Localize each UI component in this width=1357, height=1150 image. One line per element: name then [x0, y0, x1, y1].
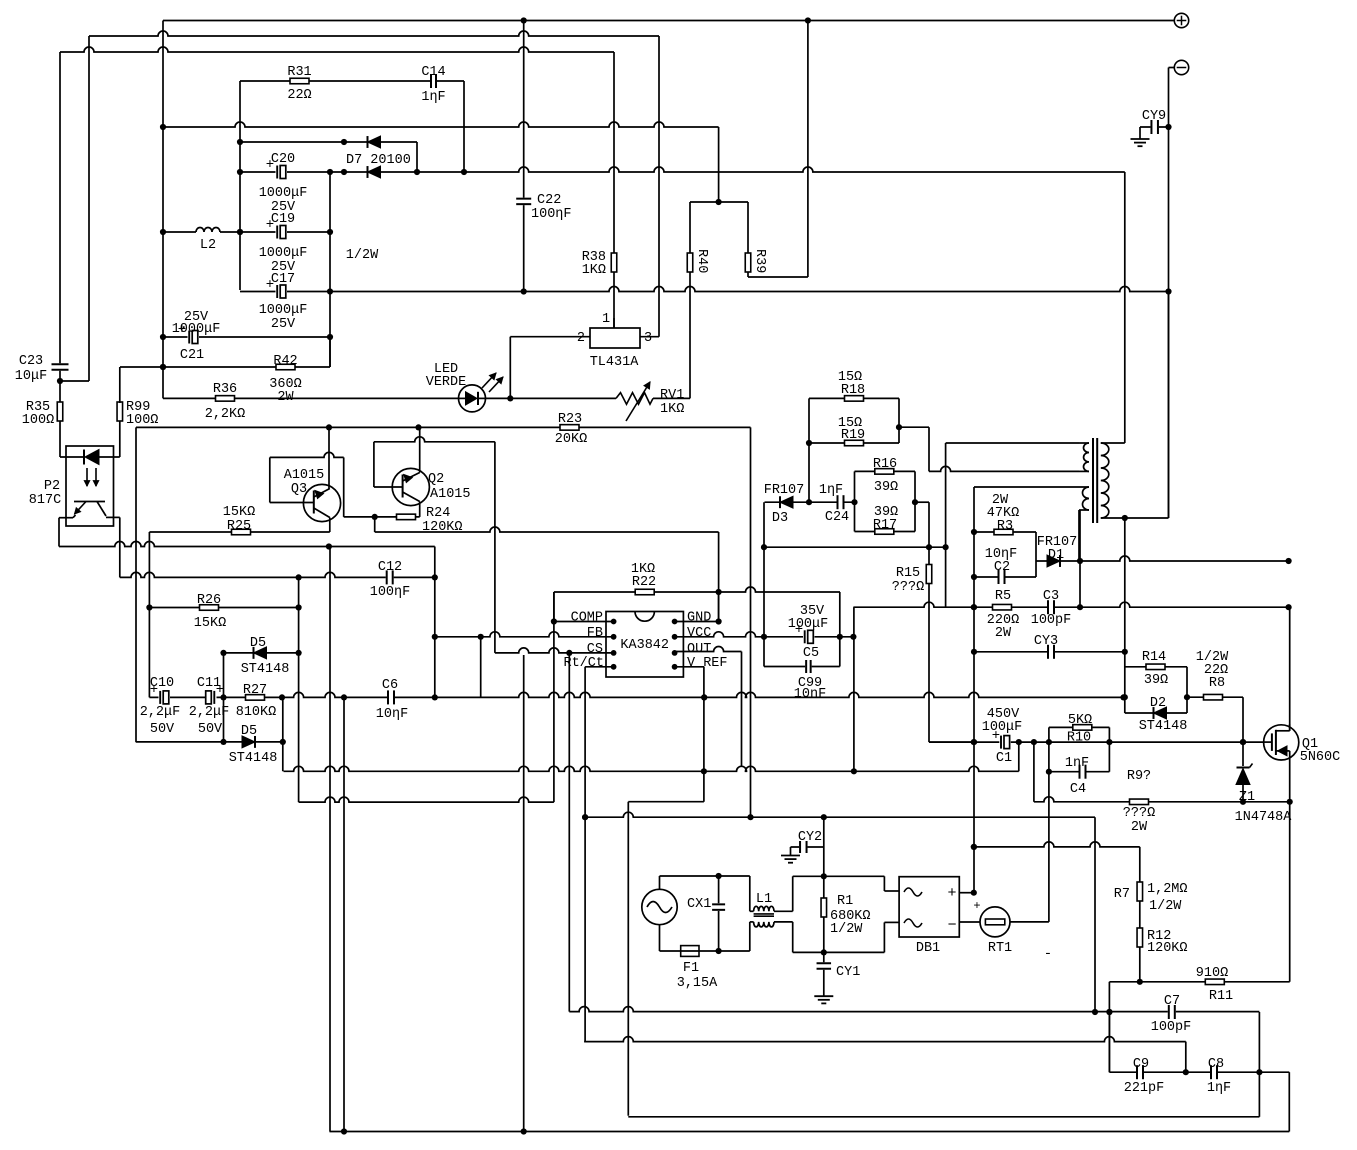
svg-text:1KΩ: 1KΩ: [660, 402, 684, 417]
svg-text:C23: C23: [19, 354, 43, 369]
svg-text:2W: 2W: [995, 626, 1012, 641]
svg-text:R22: R22: [632, 575, 656, 590]
svg-text:1: 1: [602, 312, 610, 327]
svg-text:50V: 50V: [198, 722, 223, 737]
svg-text:2,2μF: 2,2μF: [140, 705, 181, 720]
svg-text:2: 2: [577, 331, 585, 346]
svg-text:100Ω: 100Ω: [126, 413, 158, 428]
svg-text:CS: CS: [587, 642, 603, 657]
svg-text:5N60C: 5N60C: [1300, 750, 1341, 765]
svg-text:2,2KΩ: 2,2KΩ: [205, 407, 246, 422]
svg-text:D3: D3: [772, 511, 788, 526]
svg-text:1ηF: 1ηF: [819, 483, 843, 498]
svg-text:910Ω: 910Ω: [1196, 966, 1228, 981]
svg-text:100μF: 100μF: [982, 720, 1023, 735]
svg-text:R16: R16: [873, 457, 897, 472]
svg-text:R8: R8: [1209, 676, 1225, 691]
svg-text:F1: F1: [683, 961, 699, 976]
svg-text:Q2: Q2: [428, 472, 444, 487]
svg-text:R5: R5: [995, 589, 1011, 604]
svg-text:C2: C2: [994, 560, 1010, 575]
svg-text:R19: R19: [841, 428, 865, 443]
svg-text:810KΩ: 810KΩ: [236, 705, 277, 720]
svg-text:C19: C19: [271, 212, 295, 227]
svg-text:VCC: VCC: [687, 626, 711, 641]
svg-text:OUT: OUT: [687, 642, 711, 657]
svg-text:R36: R36: [213, 382, 237, 397]
svg-text:10nF: 10nF: [794, 687, 826, 702]
svg-text:CY3: CY3: [1034, 634, 1058, 649]
svg-text:COMP: COMP: [571, 611, 603, 626]
svg-text:1000μF: 1000μF: [259, 186, 308, 201]
svg-text:C10: C10: [150, 676, 174, 691]
svg-text:100pF: 100pF: [1151, 1020, 1192, 1035]
svg-text:D5: D5: [250, 636, 266, 651]
svg-text:C4: C4: [1070, 782, 1086, 797]
svg-text:817C: 817C: [29, 493, 61, 508]
svg-text:C7: C7: [1164, 994, 1180, 1009]
svg-text:R18: R18: [841, 383, 865, 398]
svg-text:1/2W: 1/2W: [1149, 899, 1182, 914]
svg-text:Q3: Q3: [291, 482, 307, 497]
svg-text:R26: R26: [197, 593, 221, 608]
svg-text:−: −: [947, 917, 956, 934]
svg-text:C17: C17: [271, 272, 295, 287]
svg-text:C14: C14: [421, 65, 445, 80]
svg-text:???Ω: ???Ω: [892, 580, 924, 595]
svg-text:R25: R25: [227, 519, 251, 534]
svg-text:CY9: CY9: [1142, 109, 1166, 124]
svg-text:1/2W: 1/2W: [346, 248, 379, 263]
svg-text:221pF: 221pF: [1124, 1081, 1165, 1096]
svg-text:C9: C9: [1133, 1057, 1149, 1072]
svg-text:10ηF: 10ηF: [376, 707, 408, 722]
svg-text:FR107: FR107: [764, 483, 805, 498]
svg-text:15KΩ: 15KΩ: [223, 505, 255, 520]
svg-text:CY1: CY1: [836, 965, 860, 980]
svg-text:D1: D1: [1048, 548, 1064, 563]
svg-text:10μF: 10μF: [15, 369, 47, 384]
svg-text:1ηF: 1ηF: [1207, 1081, 1231, 1096]
svg-text:R7: R7: [1114, 887, 1130, 902]
svg-text:L2: L2: [200, 238, 216, 253]
svg-text:C3: C3: [1043, 589, 1059, 604]
svg-text:R23: R23: [558, 412, 582, 427]
svg-text:R10: R10: [1067, 731, 1091, 746]
svg-text:R24: R24: [426, 506, 450, 521]
svg-text:C24: C24: [825, 510, 849, 525]
svg-text:R14: R14: [1142, 650, 1166, 665]
svg-text:3,15A: 3,15A: [677, 976, 718, 991]
svg-text:VERDE: VERDE: [426, 375, 467, 390]
svg-text:100ηF: 100ηF: [531, 207, 572, 222]
svg-text:FB: FB: [587, 626, 603, 641]
svg-text:R1: R1: [837, 894, 853, 909]
svg-text:Z1: Z1: [1239, 790, 1255, 805]
svg-text:1,2MΩ: 1,2MΩ: [1147, 882, 1188, 897]
svg-text:RV1: RV1: [660, 388, 684, 403]
svg-text:5KΩ: 5KΩ: [1068, 713, 1092, 728]
svg-text:20KΩ: 20KΩ: [555, 432, 587, 447]
svg-text:D5: D5: [241, 724, 257, 739]
svg-text:TL431A: TL431A: [590, 355, 640, 370]
svg-text:100Ω: 100Ω: [22, 413, 54, 428]
svg-text:A1015: A1015: [284, 468, 325, 483]
svg-text:1ηF: 1ηF: [1065, 756, 1089, 771]
svg-text:C20: C20: [271, 152, 295, 167]
svg-text:+: +: [973, 899, 980, 913]
svg-text:1/2W: 1/2W: [830, 922, 863, 937]
svg-text:2W: 2W: [1131, 820, 1148, 835]
svg-text:RT1: RT1: [988, 941, 1012, 956]
svg-text:KA3842: KA3842: [620, 638, 669, 653]
svg-text:Rt/Ct: Rt/Ct: [563, 656, 604, 671]
svg-text:39Ω: 39Ω: [1144, 673, 1168, 688]
svg-text:R17: R17: [873, 518, 897, 533]
svg-text:CY2: CY2: [798, 830, 822, 845]
svg-text:D7 20100: D7 20100: [346, 153, 411, 168]
svg-text:R42: R42: [273, 354, 297, 369]
svg-text:R40: R40: [694, 249, 709, 273]
svg-text:DB1: DB1: [916, 941, 940, 956]
svg-text:ST4148: ST4148: [241, 662, 290, 677]
svg-text:R39: R39: [752, 249, 767, 273]
svg-text:R11: R11: [1209, 989, 1233, 1004]
svg-text:R31: R31: [287, 65, 311, 80]
svg-text:-: -: [1044, 946, 1052, 962]
svg-text:C1: C1: [996, 751, 1012, 766]
svg-text:100μF: 100μF: [788, 617, 829, 632]
svg-text:P2: P2: [44, 479, 60, 494]
svg-text:R15: R15: [896, 566, 920, 581]
svg-text:1000μF: 1000μF: [259, 246, 308, 261]
svg-text:100ηF: 100ηF: [370, 585, 411, 600]
svg-text:1000μF: 1000μF: [259, 303, 308, 318]
svg-text:C12: C12: [378, 560, 402, 575]
svg-text:2W: 2W: [277, 390, 294, 405]
svg-text:D2: D2: [1150, 696, 1166, 711]
svg-text:3: 3: [644, 331, 652, 346]
svg-text:2,2μF: 2,2μF: [189, 705, 230, 720]
svg-text:C8: C8: [1208, 1057, 1224, 1072]
svg-text:C11: C11: [197, 676, 221, 691]
svg-text:R27: R27: [243, 683, 267, 698]
svg-text:1N4748A: 1N4748A: [1235, 810, 1293, 825]
svg-text:R3: R3: [997, 519, 1013, 534]
svg-text:???Ω: ???Ω: [1123, 806, 1155, 821]
svg-text:C22: C22: [537, 193, 561, 208]
svg-text:ST4148: ST4148: [1139, 719, 1188, 734]
svg-text:120KΩ: 120KΩ: [1147, 941, 1188, 956]
svg-text:100pF: 100pF: [1031, 613, 1072, 628]
svg-text:1000μF: 1000μF: [172, 322, 221, 337]
svg-text:39Ω: 39Ω: [874, 480, 898, 495]
svg-text:1KΩ: 1KΩ: [582, 263, 606, 278]
svg-text:25V: 25V: [271, 317, 296, 332]
svg-text:CX1: CX1: [687, 897, 711, 912]
svg-text:C21: C21: [180, 348, 204, 363]
svg-text:ST4148: ST4148: [229, 751, 278, 766]
svg-text:+: +: [947, 885, 956, 902]
svg-text:50V: 50V: [150, 722, 175, 737]
svg-text:1ηF: 1ηF: [421, 90, 445, 105]
svg-text:GND: GND: [687, 611, 711, 626]
svg-text:R9?: R9?: [1127, 769, 1151, 784]
svg-text:C6: C6: [382, 678, 398, 693]
svg-text:A1015: A1015: [430, 487, 471, 502]
svg-text:V REF: V REF: [687, 656, 728, 671]
svg-text:C5: C5: [803, 646, 819, 661]
svg-text:22Ω: 22Ω: [287, 88, 311, 103]
svg-text:L1: L1: [756, 892, 772, 907]
svg-text:15KΩ: 15KΩ: [194, 616, 226, 631]
